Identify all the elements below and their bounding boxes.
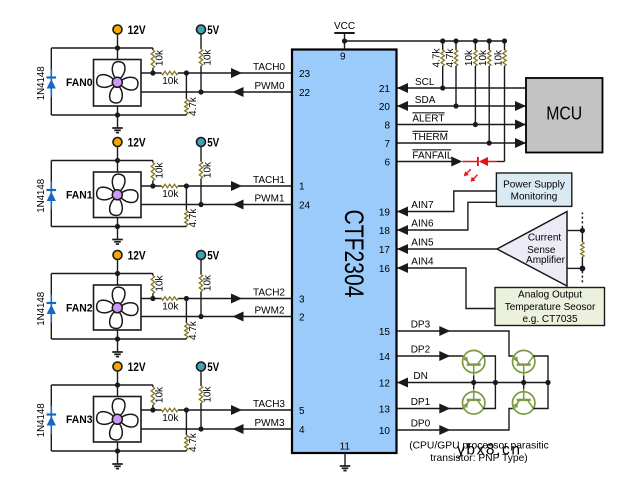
svg-text:20: 20 xyxy=(379,102,391,113)
svg-text:5V: 5V xyxy=(207,136,219,150)
svg-text:13: 13 xyxy=(379,405,391,416)
svg-text:SDA: SDA xyxy=(415,95,436,106)
svg-text:19: 19 xyxy=(379,208,391,219)
svg-text:1N4148: 1N4148 xyxy=(36,291,47,325)
svg-text:5V: 5V xyxy=(207,249,219,263)
svg-text:Temperature Seosor: Temperature Seosor xyxy=(505,302,596,313)
svg-text:2: 2 xyxy=(299,313,305,324)
svg-text:4.7k: 4.7k xyxy=(188,208,199,228)
svg-text:ybx8,cn: ybx8,cn xyxy=(457,442,520,459)
svg-text:7: 7 xyxy=(384,139,390,150)
svg-text:ALERT: ALERT xyxy=(412,114,444,125)
svg-text:17: 17 xyxy=(379,245,391,256)
svg-text:PWM0: PWM0 xyxy=(255,81,285,92)
svg-text:FAN3: FAN3 xyxy=(66,414,93,426)
svg-text:AIN7: AIN7 xyxy=(411,200,434,211)
svg-text:23: 23 xyxy=(299,69,311,80)
svg-text:24: 24 xyxy=(299,201,311,212)
svg-text:TACH3: TACH3 xyxy=(253,399,285,410)
svg-text:Monitoring: Monitoring xyxy=(511,191,558,202)
svg-text:10k: 10k xyxy=(162,413,179,424)
svg-text:THERM: THERM xyxy=(412,132,448,143)
svg-text:10k: 10k xyxy=(154,386,165,403)
svg-text:Amplifier: Amplifier xyxy=(526,255,566,266)
svg-text:e.g. CT7035: e.g. CT7035 xyxy=(522,314,577,325)
svg-text:12V: 12V xyxy=(128,23,146,37)
svg-text:MCU: MCU xyxy=(546,103,582,123)
svg-text:FAN0: FAN0 xyxy=(66,77,93,89)
svg-text:11: 11 xyxy=(340,441,351,452)
svg-text:10k: 10k xyxy=(162,189,179,200)
svg-text:SCL: SCL xyxy=(415,77,435,88)
svg-text:10k: 10k xyxy=(203,161,214,178)
svg-text:12V: 12V xyxy=(128,136,146,150)
svg-text:4.7k: 4.7k xyxy=(188,96,199,116)
svg-text:6: 6 xyxy=(384,158,390,169)
svg-text:PWM1: PWM1 xyxy=(255,194,285,205)
svg-text:AIN5: AIN5 xyxy=(411,238,434,249)
svg-text:VCC: VCC xyxy=(334,21,355,32)
svg-text:4.7k: 4.7k xyxy=(188,432,199,452)
svg-text:1N4148: 1N4148 xyxy=(36,403,47,437)
svg-text:TACH1: TACH1 xyxy=(253,175,285,186)
svg-text:10k: 10k xyxy=(154,274,165,291)
svg-text:PWM2: PWM2 xyxy=(255,306,285,317)
svg-text:10k: 10k xyxy=(154,161,165,178)
svg-text:12: 12 xyxy=(379,379,391,390)
svg-text:4.7k: 4.7k xyxy=(445,48,456,68)
svg-text:5V: 5V xyxy=(207,23,219,37)
svg-text:3: 3 xyxy=(299,295,305,306)
svg-text:10k: 10k xyxy=(464,49,475,66)
svg-text:21: 21 xyxy=(379,84,391,95)
svg-text:10k: 10k xyxy=(478,49,489,66)
svg-text:5: 5 xyxy=(299,406,305,417)
svg-text:DP1: DP1 xyxy=(411,397,431,408)
svg-text:DP2: DP2 xyxy=(411,345,431,356)
svg-text:DP3: DP3 xyxy=(411,320,431,331)
svg-text:10k: 10k xyxy=(162,302,179,313)
svg-text:10k: 10k xyxy=(154,49,165,66)
svg-text:10k: 10k xyxy=(493,49,504,66)
svg-text:AIN4: AIN4 xyxy=(411,257,434,268)
svg-text:12V: 12V xyxy=(128,249,146,263)
svg-text:10k: 10k xyxy=(203,385,214,402)
svg-text:Power Supply: Power Supply xyxy=(503,179,565,190)
svg-text:1: 1 xyxy=(299,182,305,193)
svg-text:CTF2304: CTF2304 xyxy=(339,210,369,298)
svg-text:16: 16 xyxy=(379,264,391,275)
svg-text:4.7k: 4.7k xyxy=(432,48,443,68)
svg-text:FAN1: FAN1 xyxy=(66,189,93,201)
svg-text:10k: 10k xyxy=(203,274,214,291)
svg-text:10k: 10k xyxy=(162,76,179,87)
svg-text:10: 10 xyxy=(379,426,391,437)
svg-text:TACH2: TACH2 xyxy=(253,288,285,299)
svg-text:14: 14 xyxy=(379,352,391,363)
svg-text:10k: 10k xyxy=(203,48,214,65)
svg-text:4: 4 xyxy=(299,425,305,436)
svg-text:PWM3: PWM3 xyxy=(255,418,285,429)
svg-text:12V: 12V xyxy=(128,360,146,374)
svg-text:4.7k: 4.7k xyxy=(188,320,199,340)
svg-text:5V: 5V xyxy=(207,360,219,374)
svg-text:TACH0: TACH0 xyxy=(253,62,285,73)
svg-text:1N4148: 1N4148 xyxy=(36,178,47,212)
svg-text:18: 18 xyxy=(379,226,391,237)
svg-text:DN: DN xyxy=(413,371,427,382)
svg-text:Analog Output: Analog Output xyxy=(518,289,582,300)
svg-text:DP0: DP0 xyxy=(411,419,431,430)
svg-text:FANFAIL: FANFAIL xyxy=(412,151,452,162)
svg-text:Current: Current xyxy=(528,233,562,244)
svg-text:22: 22 xyxy=(299,88,311,99)
svg-text:8: 8 xyxy=(384,121,390,132)
svg-text:15: 15 xyxy=(379,327,391,338)
svg-text:FAN2: FAN2 xyxy=(66,302,93,314)
svg-text:AIN6: AIN6 xyxy=(411,219,434,230)
svg-text:9: 9 xyxy=(340,52,346,63)
svg-text:1N4148: 1N4148 xyxy=(36,66,47,100)
